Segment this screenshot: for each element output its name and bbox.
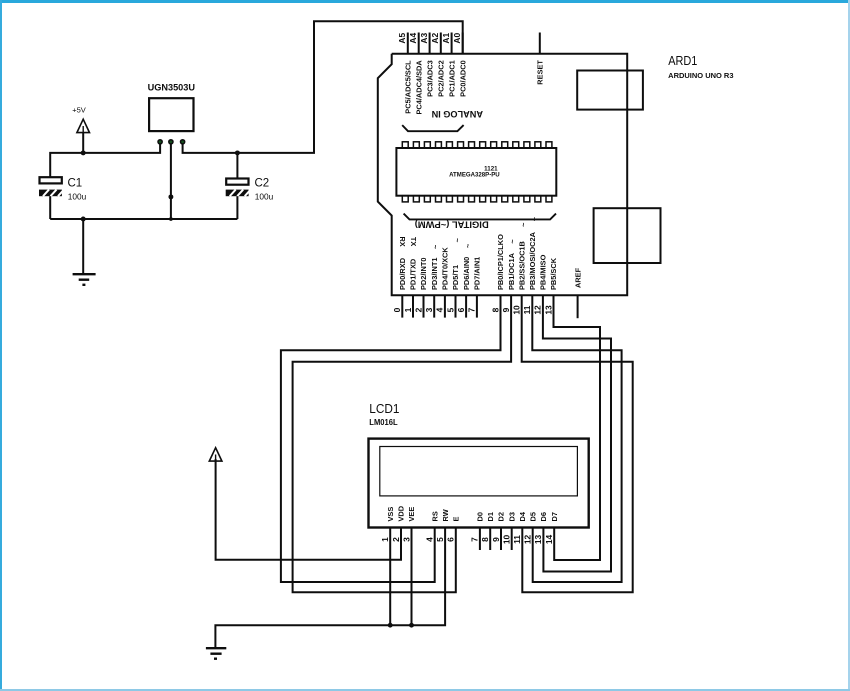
ground symbol (LCD) [206,648,226,659]
svg-text:PD5/T1: PD5/T1 [451,265,460,290]
pin AREF stub [577,295,579,318]
svg-text:A1: A1 [441,33,451,44]
pin 7 stub [476,295,478,317]
svg-text:PB2/SS/OC1B: PB2/SS/OC1B [517,241,526,290]
Arduino power jack box [594,208,661,263]
svg-text:LM016L: LM016L [369,417,397,427]
pin A4 stub [418,33,420,54]
svg-text:7: 7 [470,537,480,542]
pin A0 stub [462,33,464,54]
svg-text:12: 12 [523,535,533,545]
svg-text:E: E [452,517,461,522]
svg-text:VDD: VDD [397,505,406,521]
svg-text:D2: D2 [497,512,506,521]
svg-text:ARD1: ARD1 [668,53,697,68]
pin A5 stub [407,33,409,54]
pin A3 stub [429,33,431,54]
svg-text:1: 1 [380,537,390,542]
svg-text:2: 2 [391,537,401,542]
LCD pin 9 stub [500,528,502,551]
svg-text:VSS: VSS [386,507,395,522]
junction node VSS/ground [388,623,393,628]
svg-text:9: 9 [491,537,501,542]
pin 1 stub [412,295,414,317]
pin 0 stub [401,295,403,317]
svg-text:~: ~ [453,237,462,242]
svg-text:~: ~ [464,243,473,248]
svg-text:100u: 100u [68,192,87,202]
svg-text:PD4/T0/XCK: PD4/T0/XCK [441,247,450,290]
wire LCD VEE to ground rail [411,528,413,626]
svg-text:A0: A0 [452,33,462,44]
svg-text:5: 5 [445,307,455,312]
svg-text:11: 11 [522,305,532,314]
LCD pin 7 stub [479,528,481,551]
LCD LCD1 body [369,439,589,528]
capacitor C2 top plate [226,179,248,185]
svg-text:~: ~ [508,239,517,244]
Arduino USB connector box [577,71,643,110]
svg-text:A4: A4 [408,33,418,44]
svg-text:RS: RS [430,511,439,521]
svg-text:PB0/ICP1/CLKO: PB0/ICP1/CLKO [496,234,505,290]
svg-text:12: 12 [533,305,543,315]
svg-text:~: ~ [519,222,528,227]
svg-text:3: 3 [401,537,411,542]
svg-text:D0: D0 [476,512,485,521]
svg-text:PC4/ADC4/SDA: PC4/ADC4/SDA [414,60,423,115]
pin A1 stub [451,33,453,54]
svg-text:ATMEGA328P-PU: ATMEGA328P-PU [449,173,500,179]
svg-text:PC1/ADC1: PC1/ADC1 [447,60,456,97]
svg-text:6: 6 [446,537,456,542]
svg-text:RESET: RESET [536,60,545,85]
svg-text:PC2/ADC2: PC2/ADC2 [437,60,446,97]
capacitor C2 bottom plate (hatched) [226,190,251,197]
svg-text:ARDUINO UNO R3: ARDUINO UNO R3 [668,71,733,80]
svg-text:7: 7 [467,307,477,312]
junction node C2 top [235,150,240,155]
frame border bottom [0,689,850,691]
svg-text:D3: D3 [507,512,516,521]
svg-text:8: 8 [480,537,490,542]
svg-text:10: 10 [512,305,522,315]
frame border top [0,0,850,3]
frame border right [848,0,850,691]
pin 5 stub [455,295,457,317]
wire pin 13 -> LCD D7 [554,295,601,560]
IC ATMEGA328P bottom pins [402,196,552,202]
svg-text:4: 4 [435,307,445,312]
junction node ground tap [81,217,86,222]
LCD screen area [380,447,578,496]
svg-text:PD1/TXD: PD1/TXD [409,258,418,290]
svg-text:13: 13 [533,535,543,545]
svg-text:13: 13 [543,305,553,315]
svg-text:~: ~ [431,244,440,249]
svg-text:D1: D1 [486,512,495,521]
svg-text:3: 3 [424,307,434,312]
sensor pin 1 (left) [158,140,162,144]
svg-text:PD6/AIN0: PD6/AIN0 [462,257,471,290]
wire ground stem [82,219,84,274]
svg-text:PB1/OC1A: PB1/OC1A [507,252,516,290]
wire pin 9 -> LCD E [293,295,512,592]
junction node sensor pin2/ground rail [169,217,173,221]
svg-text:RX: RX [398,236,407,246]
svg-text:1: 1 [403,307,413,312]
svg-text:D4: D4 [518,511,527,521]
svg-text:100u: 100u [255,192,274,202]
wire pin 11 -> LCD D5 [532,295,621,582]
power symbol arrow (LCD VDD) [209,448,222,461]
svg-text:C2: C2 [255,178,270,190]
svg-text:11: 11 [512,535,522,544]
sensor pin 2 (middle) [169,140,173,144]
svg-text:9: 9 [501,307,511,312]
wire pin 10 -> LCD D4 [522,295,633,592]
svg-text:PC0/ADC0: PC0/ADC0 [458,60,467,97]
svg-text:PD0/RXD: PD0/RXD [398,257,407,290]
svg-text:UGN3503U: UGN3503U [148,82,196,92]
junction node on middle pin wire [168,194,173,199]
capacitor C1 bottom plate (hatched) [39,190,64,197]
wire C2 top leg [236,153,238,179]
LCD pin 8 stub [489,528,491,551]
wire LCD RW to ground rail [215,528,445,649]
sensor pin 3 (right) [181,140,185,144]
IC ATMEGA328P body [396,148,556,196]
frame border left [0,0,2,691]
sensor UGN3503U body [149,98,193,131]
svg-text:A5: A5 [397,33,407,44]
pin 2 stub [423,295,425,317]
brace analog group [402,125,463,131]
svg-text:PD7/AIN1: PD7/AIN1 [473,257,482,290]
svg-text:10: 10 [502,535,512,545]
pin A2 stub [440,33,442,54]
pin 3 stub [433,295,435,317]
svg-text:PC5/ADC5/SCL: PC5/ADC5/SCL [404,60,413,114]
junction node +5V/C1 [81,150,86,155]
svg-text:PC3/ADC3: PC3/ADC3 [425,60,434,97]
svg-text:PB5/SCK: PB5/SCK [549,257,558,290]
power symbol +5V arrow [77,119,90,153]
pin 6 stub [465,295,467,317]
svg-text:C1: C1 [68,178,83,190]
wire C1 bottom [49,196,51,219]
wire LCD VSS to ground rail [389,528,391,626]
svg-text:4: 4 [425,537,435,542]
wire sensor middle pin to ground rail [170,144,172,219]
svg-text:5: 5 [435,537,445,542]
svg-text:0: 0 [392,307,402,312]
wire C2 bottom [236,196,238,219]
svg-text:AREF: AREF [573,267,582,288]
svg-text:LCD1: LCD1 [369,401,399,416]
svg-text:PD2/INT0: PD2/INT0 [419,258,428,290]
Arduino ARD1 board outline [378,54,627,296]
svg-text:2: 2 [413,307,423,312]
svg-text:DIGITAL (~PWM): DIGITAL (~PWM) [415,220,489,230]
ground symbol (left) [73,274,96,285]
svg-text:D7: D7 [550,512,559,521]
wire ground rail (bottom) [50,218,237,220]
svg-text:A3: A3 [419,33,429,44]
svg-text:6: 6 [456,307,466,312]
wire pin 8 -> LCD RS [281,295,501,582]
LCD pin 10 stub [511,528,513,551]
svg-text:D6: D6 [539,512,548,521]
svg-text:14: 14 [544,535,554,545]
svg-text:ANALOG IN: ANALOG IN [431,109,483,119]
wire pin 12 -> LCD D6 [543,295,611,571]
svg-text:1121: 1121 [484,166,498,172]
capacitor C1 top plate [40,177,62,183]
pin 4 stub [444,295,446,317]
wire power arrow -> LCD VDD [216,459,401,560]
svg-text:8: 8 [490,307,500,312]
pin RESET stub [539,33,541,54]
svg-text:TX: TX [409,237,418,247]
brace digital group [404,214,556,220]
svg-text:RW: RW [441,509,450,521]
svg-text:D5: D5 [528,512,537,521]
svg-text:PB3/MOSI/OC2A: PB3/MOSI/OC2A [528,231,537,290]
wire +5V rail left (to C1 and sensor pin 1) [50,144,160,177]
svg-text:~: ~ [530,216,539,221]
junction node VEE/ground [409,623,414,628]
svg-text:PB4/MISO: PB4/MISO [539,254,548,290]
svg-text:A2: A2 [430,33,440,44]
svg-text:+5V: +5V [72,106,86,115]
svg-text:PD3/INT1: PD3/INT1 [430,258,439,290]
svg-text:VEE: VEE [407,507,416,522]
wire sensor right pin / C2 / to A0 [183,21,463,153]
IC ATMEGA328P top pins [402,142,552,148]
